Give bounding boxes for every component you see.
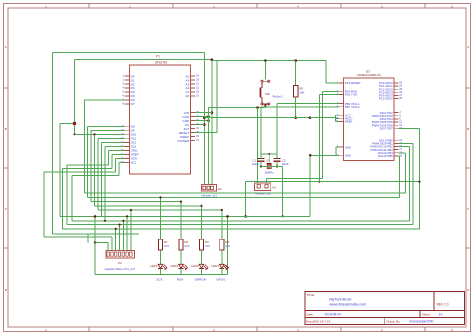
svg-text:H1: H1 [272, 186, 276, 190]
svg-text:Y1: Y1 [266, 159, 270, 163]
svg-text:ATMEGA328P-PU: ATMEGA328P-PU [357, 73, 382, 77]
svg-text:PD1 TXD: PD1 TXD [345, 93, 357, 97]
svg-text:POWER: POWER [177, 139, 189, 143]
svg-text:H2: H2 [218, 187, 222, 191]
svg-text:UNO R3: UNO R3 [155, 61, 167, 65]
svg-text:A: A [5, 45, 7, 49]
svg-text:PC5 ADC5: PC5 ADC5 [379, 97, 393, 101]
svg-text:16MHz: 16MHz [264, 171, 274, 175]
svg-text:470: 470 [205, 244, 210, 248]
svg-text:SW: SW [265, 92, 270, 96]
svg-text:LED1: LED1 [150, 264, 158, 268]
svg-text:GROG: GROG [216, 278, 226, 282]
svg-text:B: B [5, 127, 7, 131]
svg-text:Drawn By:: Drawn By: [387, 319, 401, 323]
svg-text:Date:: Date: [306, 312, 313, 316]
svg-text:D7: D7 [131, 102, 135, 106]
svg-text:B: B [467, 127, 469, 131]
svg-text:A: A [467, 45, 469, 49]
svg-text:1/1: 1/1 [439, 312, 444, 316]
svg-text:SCL: SCL [131, 161, 137, 165]
svg-text:www.itdealsindia.com: www.itdealsindia.com [329, 301, 366, 306]
svg-text:GND: GND [345, 145, 351, 149]
svg-text:Header-Male-2.54_1x7: Header-Male-2.54_1x7 [105, 267, 136, 271]
svg-text:EasyEDA V5.7.19: EasyEDA V5.7.19 [306, 319, 330, 323]
svg-text:2018-08-24: 2018-08-24 [325, 312, 342, 316]
svg-text:10K: 10K [299, 91, 304, 95]
svg-text:ReSet 1: ReSet 1 [273, 95, 284, 99]
svg-text:470: 470 [184, 244, 189, 248]
svg-text:470: 470 [225, 244, 230, 248]
svg-text:PC6 RESET: PC6 RESET [345, 81, 361, 85]
svg-text:manoranjan2050: manoranjan2050 [410, 319, 434, 323]
svg-text:TITLE:: TITLE: [306, 293, 315, 297]
svg-text:AREF: AREF [345, 120, 353, 124]
svg-text:ERROR: ERROR [195, 278, 207, 282]
svg-text:DIG13 PB5: DIG13 PB5 [378, 154, 393, 158]
svg-text:LED4: LED4 [211, 264, 219, 268]
svg-text:SCK: SCK [156, 278, 162, 282]
svg-text:470: 470 [164, 244, 169, 248]
svg-text:GND: GND [345, 154, 351, 158]
svg-text:Header 1x2: Header 1x2 [255, 192, 271, 196]
svg-text:22pF: 22pF [282, 162, 289, 166]
svg-text:RUN: RUN [177, 278, 184, 282]
svg-text:DIG7 PD7: DIG7 PD7 [380, 127, 394, 131]
svg-text:PB7 XTAL2: PB7 XTAL2 [345, 105, 360, 109]
svg-text:22pF: 22pF [252, 162, 259, 166]
svg-text:P2: P2 [118, 261, 122, 265]
svg-text:LED2: LED2 [170, 264, 178, 268]
svg-text:P1: P1 [156, 54, 160, 58]
svg-text:Sheet:: Sheet: [422, 312, 431, 316]
svg-text:LED3: LED3 [191, 264, 199, 268]
svg-text:REV 1.0: REV 1.0 [437, 303, 449, 307]
svg-text:A0: A0 [185, 94, 189, 98]
